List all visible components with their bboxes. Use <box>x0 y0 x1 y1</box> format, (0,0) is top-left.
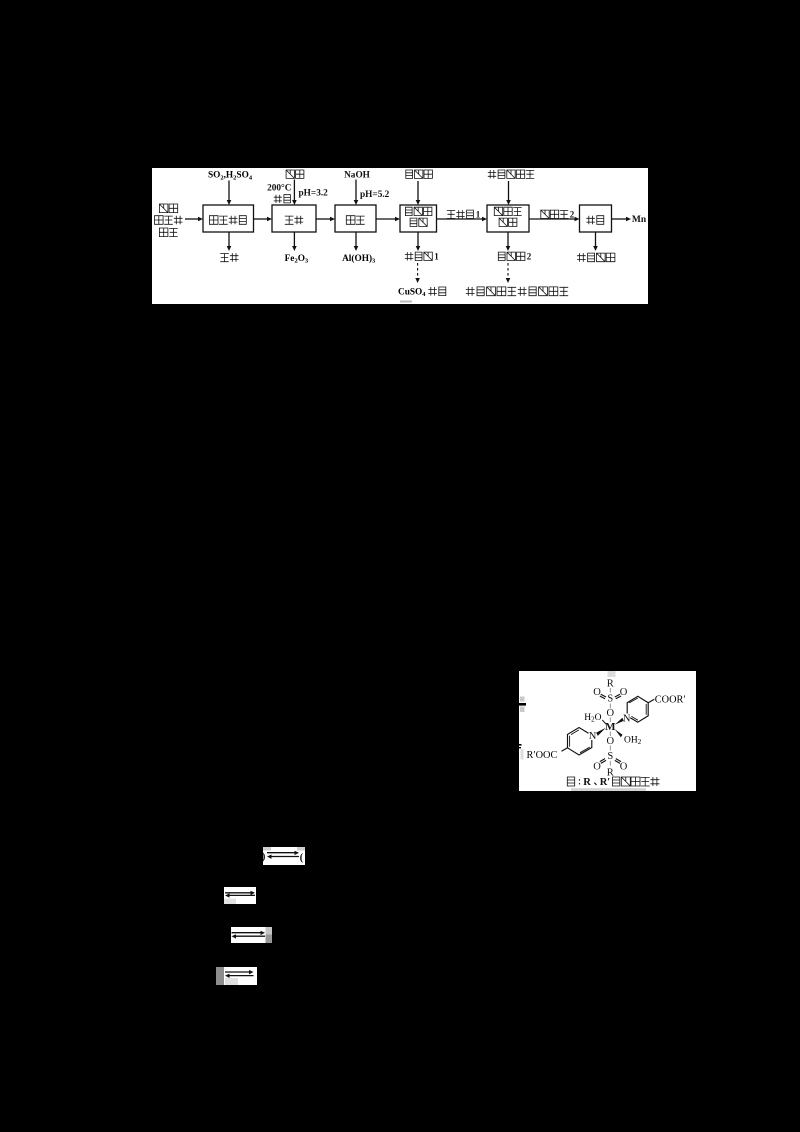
svg-text:M: M <box>605 721 616 733</box>
fragment grey left 2 <box>520 707 525 713</box>
fragment black left lower <box>519 744 522 746</box>
arrow extractant feed <box>417 181 419 201</box>
fragment grey top edge <box>608 671 616 677</box>
fragment black dash left <box>519 703 526 706</box>
label 混合萃取剂 <box>488 170 496 178</box>
box 沉铁 <box>272 205 316 232</box>
svg-text:pH=3.2: pH=3.2 <box>299 189 329 199</box>
label 萃取剂 <box>406 170 413 178</box>
pyridine LL double bonds <box>570 730 590 753</box>
svg-text:): ) <box>263 852 265 863</box>
equilibrium arrow fragment 2 <box>224 887 256 904</box>
fragment grey bottom edge <box>571 788 646 791</box>
bond O-M <box>609 718 611 723</box>
bond R-S <box>609 688 611 693</box>
arrow SO2 feed <box>228 181 230 201</box>
bond H2O-M <box>602 720 606 724</box>
label 电池级镍钴锰混合溶液 <box>466 287 475 296</box>
structure panel: metal complex diagram <box>519 671 696 791</box>
arrow box6 to Mn <box>612 218 627 220</box>
dashed arrow to mixture <box>507 263 509 279</box>
svg-text:COOR′: COOR′ <box>655 695 686 706</box>
svg-text:NaOH: NaOH <box>344 171 371 181</box>
bond ring-COOR <box>648 699 654 703</box>
arrow feed to box1 <box>185 218 199 220</box>
pyridine ring lower-left <box>568 728 592 756</box>
svg-text:1: 1 <box>434 252 439 262</box>
arrow box1 down <box>228 232 230 246</box>
label 空气 <box>286 170 294 178</box>
equilibrium arrow fragment 4 <box>216 967 257 985</box>
arrow air feed <box>293 180 295 201</box>
box 第一次萃取 <box>400 205 437 232</box>
wedge M-N lower left <box>596 728 606 736</box>
bond O-S down <box>609 746 611 751</box>
pyridine UR double bonds <box>629 698 646 720</box>
arrow box3 down <box>355 232 357 246</box>
pyridine ring upper-right <box>627 696 648 722</box>
arrow box2 down <box>293 232 295 246</box>
svg-text:pH=5.2: pH=5.2 <box>360 190 390 200</box>
arrow mixed extractant feed <box>508 181 510 201</box>
double bond S=O right <box>615 694 621 699</box>
svg-text:R′OOC: R′OOC <box>527 750 558 761</box>
svg-text:Mn: Mn <box>632 215 647 225</box>
svg-text:S: S <box>607 694 613 705</box>
bond M-O down <box>609 732 611 737</box>
wedge M-N upper right <box>615 718 624 725</box>
wedge M-OH2 lower right <box>615 729 623 737</box>
svg-text:S: S <box>607 751 613 762</box>
svg-text:N: N <box>589 731 597 742</box>
equilibrium arrow fragment 1 <box>263 847 305 865</box>
arrow box1-box2 <box>254 218 268 220</box>
equilibrium arrow fragment 3 <box>231 927 272 943</box>
arrow box3-box4 <box>376 218 396 220</box>
label 萃取液2 <box>498 252 505 260</box>
caption 注: R、R'为长链烷基 <box>567 777 574 786</box>
svg-text:R′: R′ <box>600 777 611 788</box>
svg-text:O: O <box>620 762 628 773</box>
svg-text:2: 2 <box>527 252 532 262</box>
svg-text:O: O <box>593 762 601 773</box>
double bond O=S left <box>600 694 606 699</box>
bond S-R bottom <box>609 761 611 766</box>
box 第二次萃取 <box>487 205 529 232</box>
label 滤渣 <box>220 254 229 262</box>
arrow box5 down <box>507 232 509 246</box>
label 萃取液1 <box>405 252 413 260</box>
bond ring-COOR lower <box>562 748 568 752</box>
box 酸浸还原 <box>203 205 254 232</box>
svg-text:N: N <box>623 713 631 724</box>
arrow box5-box6 label 萃余液2 <box>529 218 575 220</box>
label 电解余液 <box>577 253 586 262</box>
double bond O=S bottom-left <box>600 759 606 764</box>
arrow box6 down <box>595 232 597 246</box>
bond S-O down <box>609 704 611 709</box>
svg-text:R: R <box>607 679 614 690</box>
svg-text:200°C: 200°C <box>267 182 291 193</box>
dashed arrow to CuSO4 <box>417 263 419 279</box>
svg-text:Al(OH)3: Al(OH)3 <box>342 253 376 265</box>
svg-text:R: R <box>583 777 591 788</box>
box 沉铝 <box>335 205 376 232</box>
fragment grey left lower <box>521 749 524 760</box>
svg-text:1: 1 <box>476 210 481 220</box>
flowchart panel: deep-sea polymetallic nodule process <box>152 168 648 304</box>
arrow box4-box5 label 萃余液1 <box>437 218 483 220</box>
arrow box4 down <box>417 232 419 246</box>
svg-text:2: 2 <box>570 210 575 220</box>
label 深海多金属结核 <box>159 204 168 213</box>
decorative <box>400 301 412 303</box>
box 电解 <box>580 205 612 232</box>
svg-text:CuSO4: CuSO4 <box>398 287 426 298</box>
arrow NaOH feed <box>355 180 357 201</box>
svg-text:SO2,H2SO4: SO2,H2SO4 <box>208 171 253 182</box>
fragment grey left 1 <box>520 697 525 702</box>
arrow box2-box3 <box>316 218 331 220</box>
double bond S=O bottom-right <box>615 759 621 764</box>
